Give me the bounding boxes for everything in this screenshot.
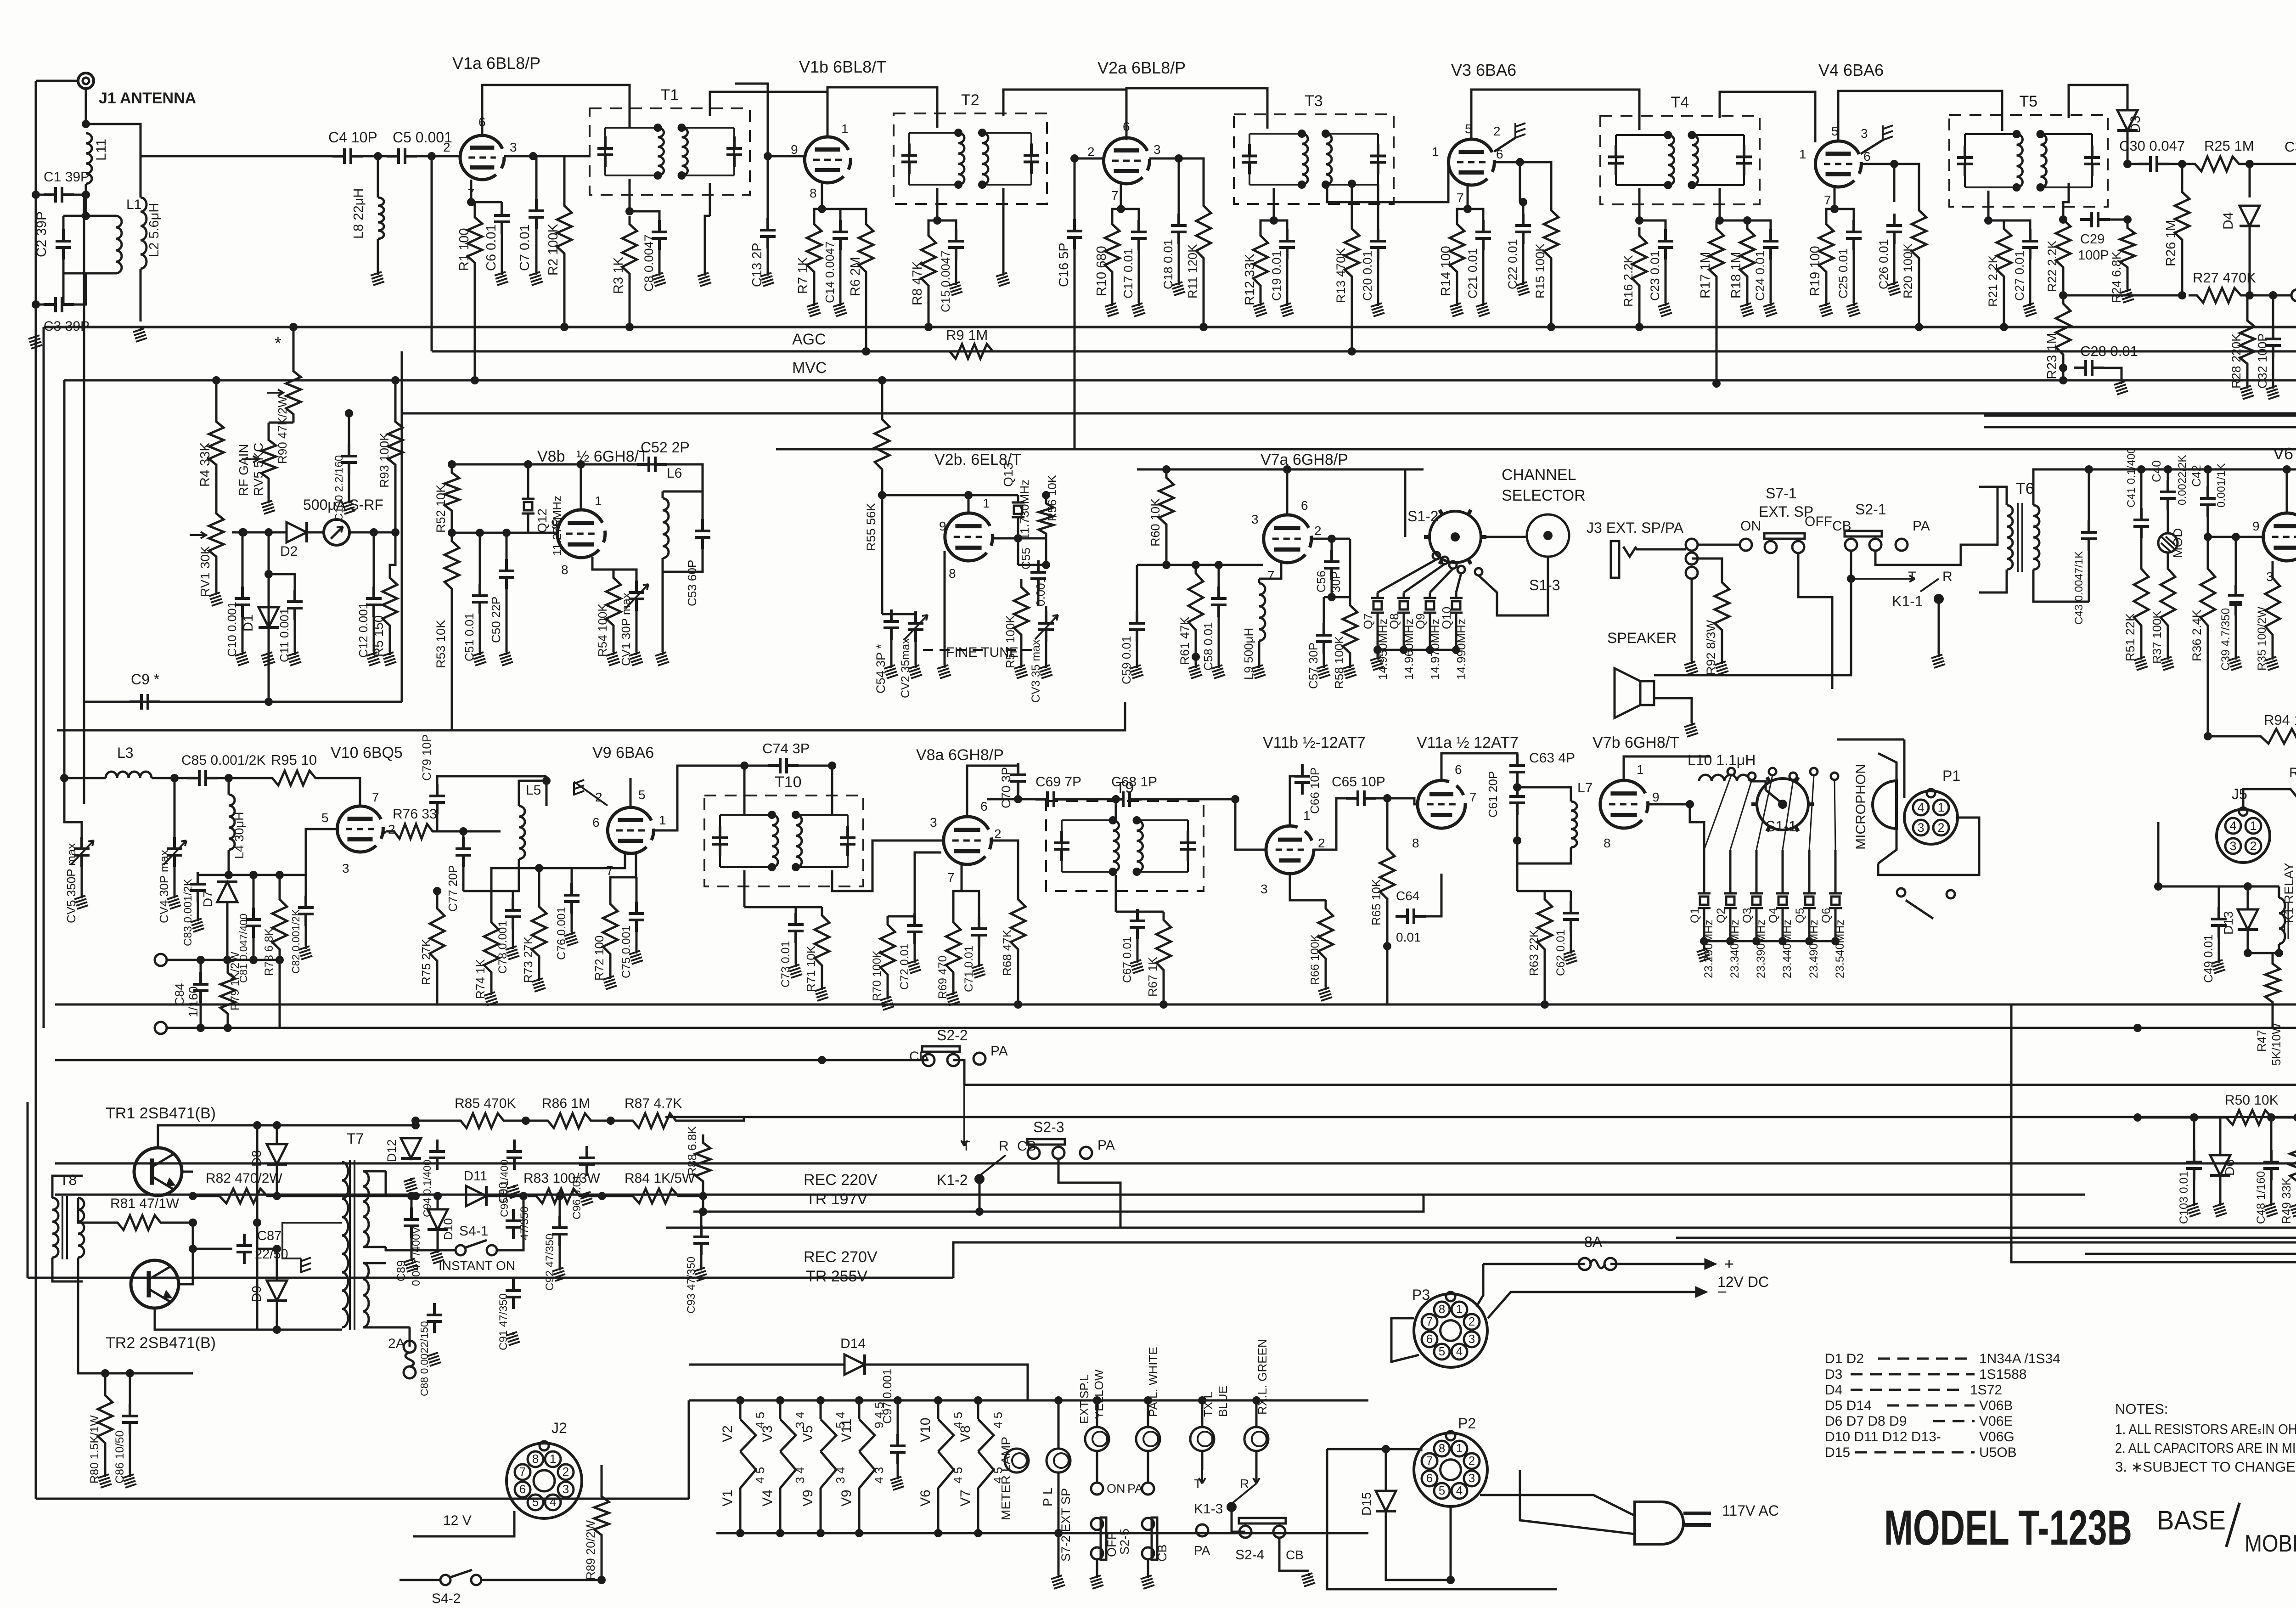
wire xyxy=(363,1246,386,1248)
wire contact to Q7 xyxy=(1378,559,1436,592)
capacitor C78 0.001 xyxy=(505,898,521,929)
wire xyxy=(462,831,465,840)
wire xyxy=(1482,1263,1485,1265)
wire V8a cathode xyxy=(953,864,962,914)
junction xyxy=(32,300,40,309)
svg-text:C25 0.01: C25 0.01 xyxy=(1836,248,1850,299)
wire J5 to R44 xyxy=(2243,789,2282,809)
resistor R67 1K xyxy=(1156,912,1171,978)
junction xyxy=(2123,160,2132,168)
ground RV1 xyxy=(209,592,223,606)
label CB S2-2 xyxy=(909,1049,929,1064)
asterisk R90 xyxy=(275,334,281,353)
junction xyxy=(2178,291,2186,299)
wire D8 top xyxy=(276,1125,278,1144)
label D4 list xyxy=(1825,1382,1842,1398)
label plus xyxy=(1724,1254,1734,1273)
wire xyxy=(538,868,540,898)
wire S4-1 out xyxy=(497,1196,523,1250)
svg-text:V11a ½ 12AT7: V11a ½ 12AT7 xyxy=(1417,734,1519,751)
wire xyxy=(2140,469,2143,511)
wire R23 to MVC xyxy=(2062,368,2065,380)
label K1-1 xyxy=(1892,593,1923,609)
svg-text:R25 1M: R25 1M xyxy=(2204,138,2254,154)
meter 500uA S-RF xyxy=(324,519,349,545)
label D6 D7 D8 D9 xyxy=(1825,1414,1907,1429)
wire xyxy=(1137,937,1139,960)
svg-text:C2 39P: C2 39P xyxy=(34,211,49,257)
IF transformer T10 secondary xyxy=(796,815,848,867)
junction xyxy=(974,1396,982,1405)
junction xyxy=(1383,942,1391,950)
wire R90 top xyxy=(293,327,295,363)
junction xyxy=(1270,216,1278,225)
label Q12 freq xyxy=(550,496,564,556)
junction xyxy=(2133,1024,2142,1032)
label C5 xyxy=(393,129,452,146)
svg-text:R26 1M: R26 1M xyxy=(2164,220,2178,266)
ground C20 xyxy=(1371,303,1384,316)
svg-text:BASE: BASE xyxy=(2157,1506,2226,1535)
wire V2a plate to T3 xyxy=(1126,88,1267,138)
svg-text:5: 5 xyxy=(638,788,646,802)
tube V1a 6BL8/P xyxy=(460,135,504,180)
wire R11 to bus xyxy=(1203,266,1205,327)
label C64 value xyxy=(1396,930,1421,944)
label ON S7-2 xyxy=(1107,1482,1125,1495)
junction xyxy=(502,529,511,537)
label K1 RELAY xyxy=(2282,863,2296,923)
svg-text:C6 0.01: C6 0.01 xyxy=(484,224,499,271)
resistor R51 22K xyxy=(2134,560,2149,634)
svg-text:R27 470K: R27 470K xyxy=(2193,270,2256,286)
junction xyxy=(1133,868,1141,876)
svg-text:R: R xyxy=(999,1139,1009,1154)
junction xyxy=(736,1396,744,1405)
junction xyxy=(276,871,284,879)
wire Q4 up xyxy=(1782,850,1784,888)
junction xyxy=(818,1056,826,1064)
label C28 xyxy=(2080,343,2138,359)
wire xyxy=(952,981,955,992)
pin 8 V2b xyxy=(949,566,956,581)
svg-text:C71 0.01: C71 0.01 xyxy=(962,946,975,992)
wire xyxy=(227,960,229,965)
wire xyxy=(1096,1451,1098,1483)
capacitor C55 0.001 xyxy=(1030,560,1046,591)
ground R80 xyxy=(98,1474,112,1488)
junction xyxy=(1915,323,1923,331)
wire C16 down xyxy=(1074,247,1076,449)
wire Q1 down xyxy=(1703,914,1705,941)
variable capacitor CV2 35max xyxy=(908,611,923,642)
wire T8 sec bottom xyxy=(78,1258,193,1373)
junction xyxy=(1519,198,1527,206)
crystal Q9 14.970MHz xyxy=(1424,592,1436,618)
wire to C11 xyxy=(269,574,295,592)
wire xyxy=(363,1326,386,1329)
junction xyxy=(1215,561,1223,569)
svg-text:Q6: Q6 xyxy=(1820,908,1833,923)
IF transformer T5 primary cap xyxy=(1957,146,1973,176)
label V3 xyxy=(760,1425,775,1442)
junction xyxy=(556,1192,564,1200)
wire xyxy=(463,830,501,833)
svg-text:9: 9 xyxy=(1652,790,1660,804)
svg-text:V3: V3 xyxy=(760,1425,775,1442)
svg-text:R5 150: R5 150 xyxy=(371,615,386,657)
wire antenna feed vertical xyxy=(83,193,85,804)
label T10 xyxy=(775,773,802,791)
pin 7 V11a xyxy=(1469,790,1477,804)
wire R16 to bus xyxy=(1638,294,1641,327)
junction xyxy=(954,181,962,189)
capacitor C94 0.1/400 xyxy=(429,1140,445,1170)
wire xyxy=(2207,514,2209,560)
dash line xyxy=(1855,1451,1975,1454)
ground C88 xyxy=(427,1353,441,1366)
wire audio B+ node line xyxy=(2141,468,2296,471)
svg-text:2: 2 xyxy=(388,822,395,836)
label C42 xyxy=(2189,465,2203,487)
svg-text:0.01: 0.01 xyxy=(1396,930,1421,944)
resistor R19 100 xyxy=(1819,216,1834,280)
svg-text:1: 1 xyxy=(1456,1441,1463,1455)
wire V7a top line xyxy=(1137,468,1424,471)
wire xyxy=(1893,241,1896,282)
label EXT SP xyxy=(1759,503,1813,520)
wire V1b in from C13 node up xyxy=(735,84,768,156)
svg-text:R52 10K: R52 10K xyxy=(434,485,448,533)
wire R93 top xyxy=(394,380,397,413)
svg-text:R1 100: R1 100 xyxy=(457,228,472,271)
heater V1 xyxy=(740,1451,756,1488)
heater V9 xyxy=(859,1451,875,1488)
junction xyxy=(2037,183,2045,192)
svg-text:S4-2: S4-2 xyxy=(432,1591,461,1606)
wire Q10 to bus xyxy=(1455,618,1458,650)
wire contact to Q10 xyxy=(1456,573,1461,592)
label PA S2-4 xyxy=(1194,1543,1210,1557)
capacitor C21 0.01 xyxy=(1475,220,1491,250)
svg-text:CB: CB xyxy=(1286,1548,1304,1562)
wire Q6 down xyxy=(1835,914,1837,941)
wire S4-1 arm xyxy=(466,1240,487,1247)
relay arm K1-3 xyxy=(1199,1470,1260,1504)
wire xyxy=(1045,606,1047,614)
ground S2-5 xyxy=(1141,1575,1154,1589)
junction xyxy=(225,774,233,782)
label R16 xyxy=(1621,255,1635,307)
wire xyxy=(1178,158,1180,216)
wire to C24 xyxy=(1747,220,1771,230)
inductor L9 500uH xyxy=(1259,583,1265,641)
wire C64 to V11a cathode xyxy=(1423,874,1441,916)
resistor R76 33 xyxy=(386,824,441,839)
svg-text:C75 0.001: C75 0.001 xyxy=(620,925,633,978)
potentiometer R90 47K/2W xyxy=(286,363,301,423)
wire K1-1 down xyxy=(1938,602,1940,654)
label C40 xyxy=(2150,460,2163,482)
label pin xyxy=(991,1467,1005,1484)
svg-text:REC 270V: REC 270V xyxy=(804,1248,878,1266)
wire left vertical main xyxy=(43,327,45,1028)
wire Q13 bottom xyxy=(1017,523,1019,538)
wire xyxy=(279,960,281,1028)
junction xyxy=(862,347,870,355)
label PA S2-3 xyxy=(1097,1138,1115,1153)
pin 5 V10 xyxy=(321,811,329,825)
relay arm K1-1 xyxy=(1851,575,1939,592)
wire T7 tap to S4-1 xyxy=(386,1247,456,1250)
wire R94 left xyxy=(2208,735,2252,738)
wire RV1 wiper to D2 xyxy=(232,531,287,534)
wire heater V9 bottom xyxy=(858,1488,861,1533)
label PA S2-2 xyxy=(990,1044,1008,1059)
wire xyxy=(1516,863,1519,891)
svg-text:YELLOW: YELLOW xyxy=(1092,1369,1106,1419)
wire xyxy=(1354,183,1355,184)
wire xyxy=(1058,1473,1060,1533)
wire V8b plate xyxy=(580,464,582,510)
label D9 xyxy=(249,1286,264,1302)
wire V2b cathode down xyxy=(944,551,946,652)
svg-text:D6: D6 xyxy=(2223,1159,2237,1176)
wire bus lower 4 xyxy=(665,1116,2296,1118)
wire C50 top xyxy=(506,533,508,562)
wire xyxy=(1519,162,1521,202)
junction xyxy=(1322,130,1330,138)
svg-text:METER LAMP: METER LAMP xyxy=(999,1437,1013,1520)
resistor R56 10K xyxy=(1039,495,1053,542)
wire xyxy=(2248,952,2279,954)
svg-text:R22 2.2K: R22 2.2K xyxy=(2045,240,2059,292)
svg-text:117V AC: 117V AC xyxy=(1722,1502,1779,1519)
junction xyxy=(1400,646,1408,654)
svg-text:C8 0.0047: C8 0.0047 xyxy=(642,234,656,292)
capacitor C48 1/160 xyxy=(2263,1150,2279,1180)
wire T9 tap xyxy=(1115,875,1117,912)
svg-text:V7: V7 xyxy=(958,1490,973,1506)
label C64 xyxy=(1396,889,1419,903)
junction xyxy=(1054,1396,1063,1405)
capacitor C18 0.01 xyxy=(1171,214,1187,244)
label V8 xyxy=(958,1425,973,1442)
label R74 xyxy=(473,959,487,999)
svg-text:C77 20P: C77 20P xyxy=(446,865,460,912)
svg-text:V8b: V8b xyxy=(537,448,565,465)
resistor R13 470K xyxy=(1345,220,1359,285)
svg-text:SPEAKER: SPEAKER xyxy=(1607,630,1677,646)
rotary S1-3 dot xyxy=(1543,531,1553,540)
wire xyxy=(386,1326,410,1329)
ground RV5 xyxy=(261,501,275,514)
svg-text:J2: J2 xyxy=(551,1420,567,1436)
junction xyxy=(1192,561,1200,569)
svg-text:100P: 100P xyxy=(2078,248,2109,263)
svg-text:S4-1: S4-1 xyxy=(459,1224,488,1239)
terminal S4-2 b xyxy=(471,1575,481,1585)
wire V4 pin6 xyxy=(1861,163,1894,165)
label R85 xyxy=(455,1096,516,1111)
label CV4 xyxy=(157,850,171,923)
svg-text:J3 EXT. SP/PA: J3 EXT. SP/PA xyxy=(1587,519,1684,536)
resistor R74 1K xyxy=(484,914,499,981)
trimmer arrow CV5 xyxy=(71,841,94,865)
wire xyxy=(197,874,199,876)
svg-text:9: 9 xyxy=(939,519,946,533)
svg-text:V11b ½-12AT7: V11b ½-12AT7 xyxy=(1263,734,1366,751)
electrolytic C39 4.7/350 xyxy=(2228,585,2244,615)
junction xyxy=(934,1529,942,1537)
junction xyxy=(433,1192,442,1200)
svg-text:L11: L11 xyxy=(94,139,109,161)
junction xyxy=(560,323,568,331)
ground C27 xyxy=(2023,303,2037,316)
lamp EXT.SP.L YELLOW xyxy=(1085,1427,1109,1451)
label C88 xyxy=(418,1321,430,1396)
svg-text:R87 4.7K: R87 4.7K xyxy=(625,1096,682,1111)
wire V6 cathode xyxy=(2272,561,2274,570)
wire xyxy=(1482,248,1485,303)
junction xyxy=(776,1396,784,1405)
terminal ant 1 xyxy=(155,954,167,966)
diode D7 xyxy=(217,882,237,902)
label R36 xyxy=(2190,609,2204,661)
label L2 xyxy=(147,203,162,257)
ground C59 xyxy=(1130,665,1143,678)
label D14 xyxy=(840,1336,866,1351)
wire V7b pin9 xyxy=(1648,803,1690,806)
junction xyxy=(2190,1113,2198,1122)
wire S2-4 out xyxy=(1279,1538,1309,1571)
label S2-3 xyxy=(1033,1119,1064,1135)
wire to C27 xyxy=(1988,220,2030,230)
wire xyxy=(914,941,916,960)
label R3 xyxy=(611,257,626,294)
svg-text:C32 100P: C32 100P xyxy=(2256,333,2269,389)
IF transformer T2 primary cap xyxy=(901,144,917,174)
ground R71 xyxy=(815,987,828,1001)
svg-text:1N34A /1S34: 1N34A /1S34 xyxy=(1979,1351,2060,1366)
ground C12 xyxy=(366,652,380,666)
resistor R8 47K xyxy=(921,227,936,294)
svg-text:6: 6 xyxy=(1455,762,1462,777)
svg-text:D14: D14 xyxy=(840,1336,866,1351)
svg-text:R11 120K: R11 120K xyxy=(1186,244,1199,299)
label C42 value xyxy=(2215,463,2228,508)
label V1b 6BL8/T xyxy=(799,57,886,76)
svg-text:11.730MHz: 11.730MHz xyxy=(1018,480,1031,540)
svg-text:R17 1M: R17 1M xyxy=(1698,252,1713,299)
wire bus 4 xyxy=(403,412,2296,415)
junction xyxy=(273,1245,281,1253)
wire to C8 xyxy=(630,211,659,220)
IF transformer T10 secondary coil xyxy=(796,815,802,867)
label C10 xyxy=(225,602,239,657)
label CV2 xyxy=(899,638,912,698)
label EXT SP L xyxy=(1077,1374,1091,1424)
svg-text:C57 30P: C57 30P xyxy=(1306,643,1320,689)
svg-text:C27 0.01: C27 0.01 xyxy=(2013,250,2026,301)
ground R72 xyxy=(603,976,617,989)
IF transformer T10 primary coil xyxy=(772,815,778,867)
ground C23 xyxy=(1658,303,1672,316)
ground R10 xyxy=(1105,303,1119,316)
wire R50 left xyxy=(2138,1117,2218,1119)
junction xyxy=(1712,379,1721,388)
wire xyxy=(1178,241,1180,282)
wire C9 to AGC xyxy=(401,351,403,702)
wire S-meter return xyxy=(57,702,1125,730)
svg-text:C30 0.047: C30 0.047 xyxy=(2119,138,2185,154)
label R22 xyxy=(2045,240,2059,292)
junction xyxy=(253,1121,261,1129)
label C52 xyxy=(641,439,690,456)
IF transformer T5 secondary coil xyxy=(2041,134,2047,187)
wire R8 to bus xyxy=(928,294,930,327)
label Q5 freq xyxy=(1807,920,1820,978)
pin 2 V7a xyxy=(1314,524,1322,538)
wire xyxy=(1517,890,1545,892)
wire Q5 down xyxy=(1808,914,1811,941)
svg-text:1: 1 xyxy=(595,494,602,508)
inductor K1 RELAY coil xyxy=(2279,898,2285,944)
ground C91 xyxy=(506,1332,520,1345)
wire xyxy=(1286,257,1289,303)
label C95 xyxy=(498,1160,510,1217)
svg-text:V4 6BA6: V4 6BA6 xyxy=(1818,61,1884,79)
wire R85 in xyxy=(416,1120,452,1122)
junction xyxy=(471,376,479,384)
svg-text:D10: D10 xyxy=(441,1218,455,1240)
label 12VDC xyxy=(1717,1274,1769,1290)
junction xyxy=(1112,795,1120,803)
ground CV1 xyxy=(629,652,643,666)
note 3 xyxy=(2115,1459,2296,1475)
label V7 xyxy=(958,1490,973,1506)
label R72 xyxy=(592,936,606,981)
label R13 xyxy=(1334,248,1348,303)
capacitor C43 0.0047/1K xyxy=(2081,520,2097,551)
tube V11b 12AT7 xyxy=(1266,826,1314,874)
resistor R26 1M xyxy=(2175,184,2189,248)
resistor R85 470K xyxy=(452,1113,512,1128)
svg-text:R66 100K: R66 100K xyxy=(1309,934,1322,985)
capacitor C65 10P xyxy=(1346,790,1376,806)
capacitor C13 2P xyxy=(760,218,776,248)
svg-text:R88 6.8K: R88 6.8K xyxy=(685,1126,699,1176)
junction xyxy=(2013,183,2021,192)
junction xyxy=(1513,836,1521,845)
junction xyxy=(2232,533,2240,541)
resistor R20 100K xyxy=(1912,202,1926,266)
wire R25-C31 xyxy=(2247,163,2296,165)
label 6GH8/T xyxy=(576,448,648,465)
wire xyxy=(2235,615,2237,657)
diode D15 xyxy=(1376,1491,1396,1511)
svg-text:R6 2M: R6 2M xyxy=(848,257,863,296)
wire xyxy=(813,280,816,303)
ground R66 xyxy=(1318,987,1332,1001)
svg-text:2: 2 xyxy=(595,790,602,804)
wire R3 to bus xyxy=(629,282,631,327)
svg-text:T6: T6 xyxy=(2016,480,2034,497)
label pin xyxy=(951,1412,965,1428)
pin 6 V9 xyxy=(592,815,600,829)
pin 3 xyxy=(1861,126,1868,141)
junction xyxy=(1382,1445,1390,1453)
